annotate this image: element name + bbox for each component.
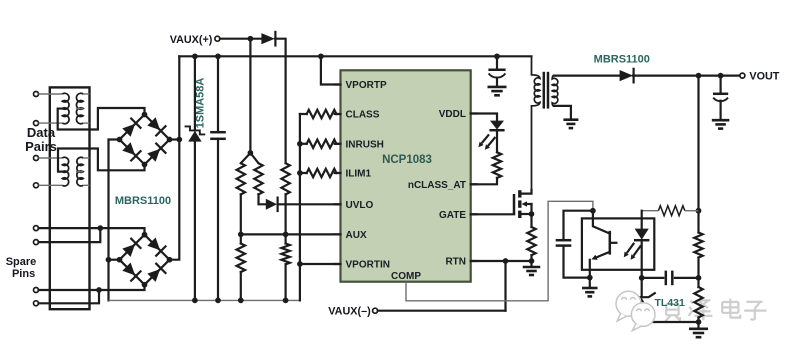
svg-text:1SMA58A: 1SMA58A <box>194 78 206 129</box>
terminal pin 1 <box>34 92 39 97</box>
svg-text:RTN: RTN <box>445 257 466 268</box>
svg-text:VAUX(–): VAUX(–) <box>328 306 371 318</box>
T1 center-tap ticks <box>76 108 83 110</box>
terminal VOUT <box>740 73 745 78</box>
ground (C2) <box>488 87 507 95</box>
resistor R10 (source sense) <box>527 227 535 255</box>
terminal pin 7 <box>34 288 39 293</box>
wire terminal6 joins terminal5 <box>39 228 101 242</box>
resistor R3 (feed upper) <box>281 163 289 194</box>
svg-text:ILIM1: ILIM1 <box>346 169 372 180</box>
wire VPORTIN pin tee <box>297 261 303 267</box>
wire VAUX(-) <box>378 310 506 312</box>
terminal VAUX(+) <box>215 36 220 41</box>
wire apex to R1/R2 tops <box>241 153 259 163</box>
resistor R9 (nCLASS_AT) <box>496 130 498 152</box>
wire VAUX+ sense divider feed <box>249 39 251 153</box>
optocoupler U2 box <box>582 218 654 269</box>
pin VPORTP <box>335 83 341 85</box>
junction rail-VPORTP drop <box>318 53 324 59</box>
wire R9 to nCLASS_AT pin <box>471 178 497 184</box>
transformer T3 primary winding <box>532 56 540 190</box>
pin ILIM1 <box>335 172 341 174</box>
ground (divider) <box>697 322 699 329</box>
shunt regulator U3 TL431 <box>641 278 643 297</box>
optocoupler U2 phototransistor <box>609 231 612 255</box>
svg-text:UVLO: UVLO <box>346 200 374 211</box>
wire terminal8 joins terminal7 <box>39 290 100 303</box>
transistor Q1 (N-MOSFET) <box>513 194 516 214</box>
svg-text:VAUX(+): VAUX(+) <box>170 34 213 46</box>
terminal pin 5 <box>34 226 39 231</box>
pin INRUSH <box>335 143 341 145</box>
svg-text:AUX: AUX <box>346 230 367 241</box>
transformer T2 secondary winding <box>77 157 83 186</box>
pin UVLO <box>335 203 341 205</box>
svg-text:GATE: GATE <box>439 210 466 221</box>
watermark chat bubbles <box>616 291 641 321</box>
wire bridge D2 minus stub <box>109 259 120 261</box>
wire RTN <box>471 260 532 262</box>
svg-text:VDDL: VDDL <box>439 109 466 120</box>
svg-text:MBRS1100: MBRS1100 <box>115 195 171 207</box>
ground (T3 secondary) <box>563 120 578 128</box>
wire terminal3 to T2 primary top <box>39 157 63 159</box>
resistor R7 (INRUSH) <box>297 141 303 147</box>
wire terminal7 to bridge D2 bottom <box>39 285 145 290</box>
capacitor C1 (input) <box>217 56 219 132</box>
wire terminal4 to T2 primary bottom <box>39 184 63 186</box>
TVS zener D4 1SMA58A <box>194 56 196 130</box>
LED D6 (VDDL indicator) <box>490 121 504 130</box>
optocoupler LED arrows <box>627 243 635 253</box>
diode bridge D1 (data pairs) MBRS1100 <box>120 115 170 165</box>
ground (C3) <box>712 120 730 128</box>
resistor R12 (divider lower) <box>694 287 702 318</box>
junction rail-zener <box>192 53 198 59</box>
wire VAUX(-) riser to RTN <box>504 261 506 311</box>
wire bridge D1 minus to negative bus <box>109 140 120 301</box>
capacitor C2 (VPORTP bypass) <box>496 56 498 70</box>
wire output to VOUT <box>633 74 740 76</box>
pin VPORTIN <box>335 263 341 265</box>
wire T3 secondary bottom to ground <box>554 106 571 120</box>
wire VDDL to LED <box>471 114 497 121</box>
wire terminal2 to T1 primary bottom <box>39 122 63 124</box>
resistor R1 (UVLO upper) <box>237 163 245 194</box>
pin GATE <box>471 213 477 215</box>
T1 secondary end stubs <box>83 93 89 95</box>
transformer T3 core <box>543 72 546 109</box>
pin RTN <box>471 260 477 262</box>
wire CLASS/INRUSH/ILIM1 common leg <box>299 114 301 300</box>
resistor R8 (ILIM1) <box>297 170 303 176</box>
wire VOUT divider leg <box>697 76 699 233</box>
svg-text:CLASS: CLASS <box>346 110 380 121</box>
terminal pin 8 <box>34 301 39 306</box>
wire T1 center tap to bridge D1 top (AC) <box>58 108 145 130</box>
wire VAUX(+) to diode <box>220 38 261 40</box>
svg-text:COMP: COMP <box>391 271 421 282</box>
transformer T3 secondary winding <box>552 76 558 106</box>
pin CLASS <box>335 113 341 115</box>
pin AUX <box>335 233 341 235</box>
transformer T1 secondary winding <box>76 93 83 124</box>
wire R1 bottom to AUX rail <box>240 194 242 234</box>
watermark text strokes <box>665 299 766 322</box>
wire terminal1 to T1 primary top <box>39 93 63 95</box>
diode D7 MBRS1100 (output) <box>620 70 633 81</box>
capacitor C4 (COMP) <box>564 211 593 241</box>
wire AUX rail <box>241 233 341 235</box>
wire bridge D1 plus to VAUX bus <box>170 138 180 140</box>
svg-text:Spare: Spare <box>6 256 37 268</box>
transformer T1 primary winding <box>62 93 69 124</box>
svg-text:VPORTP: VPORTP <box>346 80 387 91</box>
wire diode D3 to IC feed line <box>275 39 285 164</box>
resistor R5 (lower right) <box>285 234 287 243</box>
LED D6 arrows <box>482 134 489 143</box>
terminal VAUX(-) <box>373 308 378 313</box>
diode bridge D2 (spare pins) MBRS1100 <box>120 235 170 285</box>
terminal pin 3 <box>34 156 39 161</box>
terminal pin 4 <box>34 183 39 188</box>
pin VDDL <box>471 112 477 114</box>
ground (opto emitter) <box>589 278 591 288</box>
svg-text:TL431: TL431 <box>655 297 686 309</box>
junction rail-cap C2 <box>494 53 500 59</box>
svg-text:INRUSH: INRUSH <box>346 139 384 150</box>
terminal pin 2 <box>34 121 39 126</box>
svg-text:NCP1083: NCP1083 <box>382 154 432 166</box>
svg-text:Pairs: Pairs <box>25 139 57 154</box>
T2 secondary end stubs <box>83 157 89 159</box>
wire R3 bottom across to AUX rail <box>285 194 287 234</box>
wire T2 center tap to bridge D1 bottom (AC) <box>58 149 145 172</box>
svg-text:MBRS1100: MBRS1100 <box>594 54 650 66</box>
svg-text:VOUT: VOUT <box>749 71 779 83</box>
wire D5 to UVLO pin <box>278 203 340 205</box>
svg-text:VPORTIN: VPORTIN <box>346 260 390 271</box>
optocoupler U2 LED <box>641 211 643 229</box>
resistor R13 (opto bias) <box>642 210 659 212</box>
pin nCLASS_AT <box>471 183 477 185</box>
ground (source sense) <box>530 261 532 267</box>
wire R2 to diode D5 <box>259 194 266 204</box>
magnetics module box (data pairs / spare pins) <box>50 87 90 309</box>
wire VAUX bus top segment <box>178 56 180 139</box>
terminal pin 6 <box>34 240 39 245</box>
transformer T2 primary winding <box>62 157 68 186</box>
T2 center-tap ticks <box>76 171 83 173</box>
resistor R4 (lower left) <box>240 234 242 243</box>
wire T3 secondary to output diode <box>554 74 620 76</box>
wire bridge D2 plus to VAUX bus riser <box>170 140 180 260</box>
resistor R11 (divider upper) <box>694 233 702 258</box>
junction rail-cap <box>215 53 221 59</box>
wire terminal5 to bridge D2 top <box>39 228 145 235</box>
svg-text:Data: Data <box>27 125 56 140</box>
wire VPORTP top rail <box>179 55 531 57</box>
resistor R6 (CLASS) <box>300 113 307 115</box>
diode D5 (UVLO) <box>266 199 277 210</box>
wire COMP network <box>406 201 593 300</box>
capacitor C5 (TL431 comp) <box>642 277 664 279</box>
svg-text:Pins: Pins <box>12 268 35 280</box>
svg-text:nCLASS_AT: nCLASS_AT <box>408 180 466 191</box>
wire GATE to MOSFET <box>471 213 514 215</box>
capacitor C3 (output) <box>719 76 721 94</box>
op-amp/controller U1 NCP1083 <box>341 70 471 281</box>
resistor R2 (UVLO divider) <box>254 163 262 194</box>
diode D3 (VAUX+ OR-ing) <box>261 33 274 44</box>
wire VPORTN bottom rail <box>109 299 300 301</box>
wire VPORTP drop to pin <box>321 56 341 84</box>
